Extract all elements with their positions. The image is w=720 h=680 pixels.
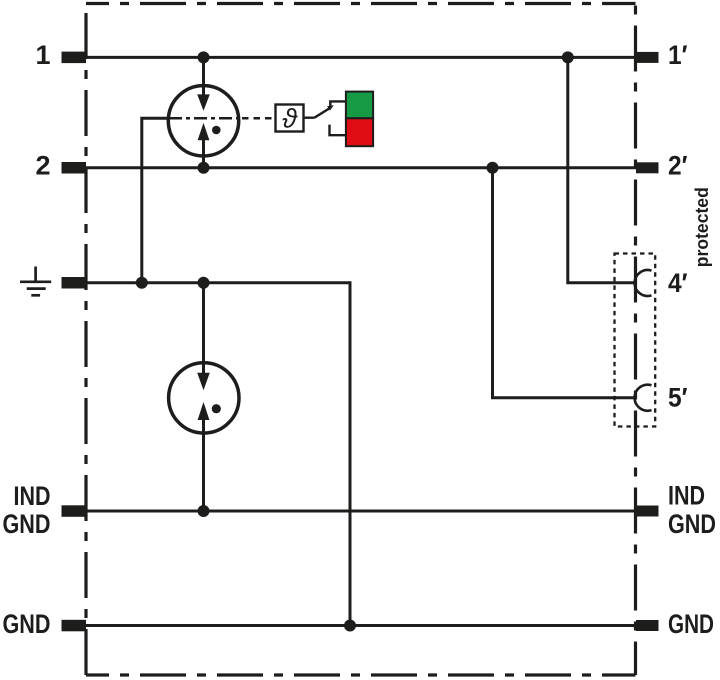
wire line 1 bbox=[74, 56, 648, 59]
terminal pad IND GND right bbox=[636, 506, 659, 517]
switch arm arrowhead bbox=[327, 105, 334, 110]
protected zone dashed box bbox=[615, 254, 656, 427]
socket 5' bbox=[635, 385, 652, 411]
F1 inner dot bbox=[212, 126, 221, 135]
F1 bottom arrow shaft bbox=[202, 138, 205, 168]
socket 4' bbox=[635, 270, 652, 296]
switch arm bbox=[314, 108, 330, 118]
terminal pad 1 bbox=[62, 52, 87, 64]
junction dot line1 at F1 bbox=[198, 51, 210, 63]
wire line 2 bbox=[74, 166, 648, 169]
wire GND line bbox=[74, 624, 648, 627]
F1 dash-dot electrode line bbox=[169, 117, 240, 120]
F1 left wire to ground bbox=[142, 118, 169, 282]
junction dot ground at F1 branch bbox=[136, 277, 148, 289]
wire to protected terminal 5' bbox=[493, 168, 636, 398]
terminal pad 2 bbox=[62, 162, 87, 174]
F2 top arrow shaft bbox=[202, 283, 205, 376]
junction dot GND line bbox=[344, 620, 356, 632]
F1 top arrowhead bbox=[197, 94, 210, 110]
surge arrester F1 circle bbox=[168, 86, 238, 156]
wire ground line bbox=[74, 283, 350, 626]
svg-text:4′: 4′ bbox=[668, 268, 688, 298]
svg-text:ϑ: ϑ bbox=[282, 104, 298, 134]
terminal pad GND right bbox=[636, 620, 659, 631]
F1 top arrow shaft bbox=[202, 57, 205, 98]
svg-text:GND: GND bbox=[668, 509, 716, 539]
switch top contact bbox=[330, 101, 346, 106]
dashed link to thermal monitor bbox=[242, 117, 276, 120]
wire to protected terminal 4' bbox=[568, 57, 636, 282]
switch bottom contact bbox=[330, 125, 346, 136]
svg-text:IND: IND bbox=[668, 481, 705, 511]
border frame right (dash-dot) bbox=[634, 4, 637, 676]
F1 bottom arrowhead bbox=[198, 123, 210, 140]
junction dot line2 at 5' branch bbox=[487, 162, 499, 174]
svg-text:2′: 2′ bbox=[668, 151, 688, 181]
terminal pad IND GND left bbox=[62, 505, 87, 517]
switch lead bbox=[304, 116, 315, 118]
red indicator bbox=[346, 118, 373, 146]
terminal pad 2' bbox=[636, 162, 659, 173]
svg-text:IND: IND bbox=[14, 481, 51, 511]
surge arrester F2 circle bbox=[169, 363, 239, 433]
junction dot line2 at F1 bbox=[198, 162, 210, 174]
svg-text:1′: 1′ bbox=[668, 40, 688, 70]
svg-text:5′: 5′ bbox=[668, 383, 688, 413]
junction dot line1 at 4' branch bbox=[562, 51, 574, 63]
F2 bottom arrow shaft bbox=[202, 418, 205, 511]
ground symbol bbox=[20, 267, 51, 296]
svg-text:2: 2 bbox=[35, 151, 50, 181]
wire IND GND line bbox=[74, 510, 648, 513]
F2 top arrowhead bbox=[197, 373, 210, 390]
svg-text:protected: protected bbox=[692, 187, 712, 267]
svg-text:GND: GND bbox=[668, 609, 714, 639]
F2 bottom arrowhead bbox=[198, 402, 210, 420]
green indicator bbox=[346, 92, 373, 119]
F2 inner dot bbox=[212, 404, 221, 413]
terminal pad 1' bbox=[636, 52, 659, 63]
border frame bottom (dash-dot) bbox=[86, 673, 636, 676]
thermal monitor box bbox=[276, 105, 304, 132]
junction dot ground at F2 branch bbox=[198, 277, 210, 289]
border frame top (dash-dot) bbox=[86, 2, 636, 5]
junction dot IND GND at F2 bbox=[198, 505, 210, 517]
svg-text:GND: GND bbox=[3, 509, 51, 539]
svg-text:1: 1 bbox=[35, 40, 50, 70]
border frame left (dash-dot) bbox=[84, 4, 87, 676]
terminal pad ground bbox=[62, 277, 87, 289]
svg-text:GND: GND bbox=[3, 609, 51, 639]
terminal pad GND left bbox=[62, 620, 87, 632]
